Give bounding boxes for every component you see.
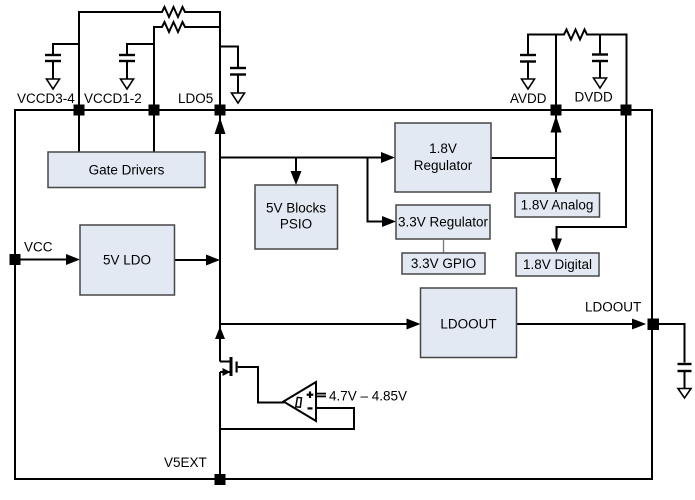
block: 5V LDO U3 xyxy=(80,225,175,295)
wire: 5V rail below MOSFET down to V5EXT node xyxy=(219,372,221,480)
resistor R2 (between VCCD1-2 and LDO5 rails) xyxy=(154,22,220,32)
svg-text:1.8V: 1.8V xyxy=(429,141,457,156)
wire: LDOOUT junction to capacitor C6 xyxy=(652,324,685,363)
svg-text:4.7V – 4.85V: 4.7V – 4.85V xyxy=(329,389,407,404)
svg-text:5V LDO: 5V LDO xyxy=(103,253,151,268)
arrowhead: into 1.8V Regulator U1 xyxy=(381,152,395,163)
capacitor C6 (LDOOUT decoupling) xyxy=(678,364,692,389)
svg-text:5V Blocks: 5V Blocks xyxy=(266,201,326,216)
wire: left vertical bus xyxy=(14,109,16,480)
wire: 5V LDO output to 5V rail xyxy=(175,259,210,261)
arrowhead: up into LDO5 junction xyxy=(215,118,226,135)
svg-text:3.3V Regulator: 3.3V Regulator xyxy=(398,215,489,230)
wire: 3.3V Regulator to 3.3V GPIO connector xyxy=(443,239,445,253)
svg-text:3.3V GPIO: 3.3V GPIO xyxy=(411,256,476,271)
wire: branch to 3.3V Regulator xyxy=(368,158,385,222)
arrowhead: down into 1.8V Digital xyxy=(551,239,562,253)
svg-text:LDOOUT: LDOOUT xyxy=(440,317,496,332)
wire: comparator - input feedback to 5V rail xyxy=(220,408,354,429)
capacitor C1 (VCCD3-4 decoupling) xyxy=(45,44,79,79)
ground (C5) xyxy=(594,78,607,88)
svg-text:DVDD: DVDD xyxy=(575,90,614,105)
ground (C1) xyxy=(47,79,60,89)
svg-text:LDOOUT: LDOOUT xyxy=(585,300,641,315)
wire: right vertical bus xyxy=(651,109,653,480)
svg-text:VCCD1-2: VCCD1-2 xyxy=(84,91,142,106)
svg-text:1.8V Digital: 1.8V Digital xyxy=(523,257,592,272)
ground (C2) xyxy=(121,79,134,89)
block: 5V Blocks PSIO xyxy=(255,185,338,249)
wire: AVDD vertical xyxy=(555,34,557,111)
block: 1.8V Digital xyxy=(516,253,599,276)
wire: drop into 5V Blocks PSIO xyxy=(295,158,297,174)
block: 3.3V GPIO xyxy=(402,253,485,274)
capacitor C2 (VCCD1-2 decoupling) xyxy=(119,44,154,79)
wire: bottom bus xyxy=(14,478,653,480)
svg-text:LDO5: LDO5 xyxy=(178,91,213,106)
arrowhead: up into LDOOUT branch junction xyxy=(215,327,225,340)
svg-text:V5EXT: V5EXT xyxy=(164,455,207,470)
arrowhead: into 5V LDO U3 xyxy=(66,254,80,265)
node: VCCD3-4 junction xyxy=(74,105,85,116)
node: VCC input xyxy=(10,254,21,265)
svg-text:1.8V Analog: 1.8V Analog xyxy=(521,198,594,213)
wire: VCCD3-4 vertical (junction to resistor R1 rail and down to Gate Drivers) xyxy=(78,11,80,152)
block: LDOOUT xyxy=(421,288,517,358)
wire: top main bus xyxy=(14,109,653,111)
svg-text:AVDD: AVDD xyxy=(510,91,547,106)
capacitor C4 (AVDD decoupling) xyxy=(520,34,536,80)
wire: 5V feed line to 1.8V Regulator xyxy=(220,157,384,159)
node: DVDD junction xyxy=(621,105,632,116)
wire: comparator + reference stub xyxy=(317,394,327,397)
node: LDOOUT output junction xyxy=(648,319,660,331)
arrowhead: up into AVDD junction xyxy=(551,116,562,133)
wire: DVDD vertical xyxy=(626,34,628,111)
block: 1.8V Analog xyxy=(515,193,600,217)
arrowhead: 5V LDO output onto rail xyxy=(206,255,220,266)
node: VCCD1-2 junction xyxy=(149,105,160,116)
block: 3.3V Regulator U2 xyxy=(396,205,490,239)
wire: gate of Q1 to comparator output xyxy=(238,367,284,403)
resistor R1 (between VCCD3-4 and LDO5 rails) xyxy=(79,7,220,17)
capacitor C5 (DVDD decoupling) xyxy=(592,34,608,79)
arrowhead: LDOOUT output onto right bus xyxy=(632,319,646,330)
svg-text:PSIO: PSIO xyxy=(280,217,312,232)
transistor Q1 (NMOS pass FET on 5V rail) xyxy=(220,357,238,376)
wire: VCC input to 5V LDO xyxy=(15,259,69,261)
arrowhead: into 3.3V Regulator U2 xyxy=(382,216,396,227)
ground (C3) xyxy=(232,93,245,103)
wire: LDO5 vertical above bus xyxy=(219,11,221,110)
resistor R3 (between AVDD and DVDD rails) xyxy=(528,30,627,40)
wire: VCCD1-2 vertical (junction to resistor R2 rail and down to Gate Drivers) xyxy=(153,26,155,152)
arrowhead: down into 1.8V Analog xyxy=(551,178,562,192)
block: Gate Drivers xyxy=(48,152,205,188)
wire: 1.8V Regulator output to AVDD rail xyxy=(491,157,557,159)
ground (C4) xyxy=(522,79,535,89)
svg-text:VCC: VCC xyxy=(24,240,53,255)
node: LDO5 junction xyxy=(215,105,226,116)
svg-text:VCCD3-4: VCCD3-4 xyxy=(17,91,75,106)
wire: LDO5 vertical below bus (main 5V rail down to V5EXT) xyxy=(219,110,221,362)
arrowhead: into LDOOUT block xyxy=(407,319,421,330)
wire: AVDD rail below bus down to 1.8V Analog xyxy=(555,110,557,192)
svg-text:Gate Drivers: Gate Drivers xyxy=(89,163,165,178)
wire: DVDD rail down and across to 1.8V Digital xyxy=(557,110,627,241)
block: 1.8V Regulator U1 xyxy=(395,123,491,192)
node: AVDD junction xyxy=(551,105,562,116)
capacitor C3 (LDO5 decoupling) xyxy=(220,47,246,94)
arrowhead: into 5V Blocks PSIO xyxy=(291,171,302,185)
svg-text:Regulator: Regulator xyxy=(414,158,473,173)
wire: LDOOUT block output to right bus xyxy=(517,323,635,325)
ground (C6) xyxy=(678,389,691,399)
op-amp U4 (comparator with hysteresis) xyxy=(284,382,317,421)
wire: 5V rail branch to LDOOUT block xyxy=(220,323,409,325)
node: V5EXT xyxy=(215,474,226,485)
